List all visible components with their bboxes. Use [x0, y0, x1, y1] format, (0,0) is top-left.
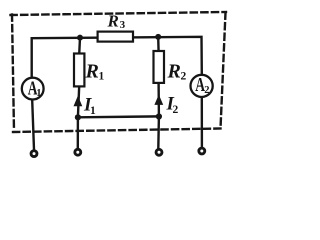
current arrow I2 — [154, 95, 163, 105]
resistor R1 (vertical box) — [74, 54, 84, 87]
svg-text:2: 2 — [204, 85, 209, 96]
svg-text:R: R — [85, 61, 99, 83]
svg-text:2: 2 — [173, 104, 179, 116]
svg-text:R: R — [167, 61, 181, 83]
ammeter A2 (circle) — [191, 75, 213, 97]
node: junction bottom right — [156, 113, 162, 119]
wire: R2 branch vertical (junction to R2, R2 to bottom node, down to terminal 3) — [157, 37, 160, 149]
label R2 — [167, 61, 187, 83]
wire: R1 branch vertical (junction to R1, R1 to bottom node, down to terminal 2) — [78, 38, 80, 148]
resistor R3 (box on top bus) — [98, 32, 133, 42]
svg-text:R: R — [107, 12, 119, 31]
enclosure dashed border: top side — [11, 12, 227, 15]
enclosure dashed border: left side — [12, 15, 14, 132]
label A2 — [195, 73, 209, 96]
svg-text:1: 1 — [36, 88, 41, 99]
terminal 1 (open circle) — [31, 151, 37, 157]
wire: A1 to terminal 1 — [32, 100, 34, 149]
svg-text:1: 1 — [90, 105, 96, 117]
label I2 — [166, 94, 179, 117]
node: junction on top bus above R1 — [77, 35, 83, 41]
label I1 — [83, 95, 96, 118]
wire: A2 to terminal 4 — [201, 98, 203, 147]
svg-text:3: 3 — [120, 19, 126, 31]
terminal 4 (open circle) — [199, 148, 205, 154]
resistor R2 (vertical box) — [154, 51, 165, 83]
label R1 — [85, 61, 105, 83]
terminal 3 (open circle) — [156, 149, 162, 155]
svg-text:1: 1 — [99, 71, 105, 83]
node: junction on top bus above R2 — [155, 34, 161, 40]
terminal 2 (open circle) — [75, 149, 81, 155]
enclosure dashed border: right side — [221, 13, 226, 129]
wire: bottom shunt wire between branch nodes — [78, 115, 159, 118]
label A1 — [28, 77, 42, 99]
current arrow I1 — [74, 96, 83, 106]
ammeter A1 (circle) — [22, 78, 44, 100]
node: junction bottom left — [75, 114, 81, 120]
enclosure dashed border: bottom side — [13, 129, 221, 133]
wire: top bus from left corner to right corner — [32, 37, 202, 77]
label R3 — [107, 12, 126, 32]
svg-text:2: 2 — [181, 71, 187, 83]
